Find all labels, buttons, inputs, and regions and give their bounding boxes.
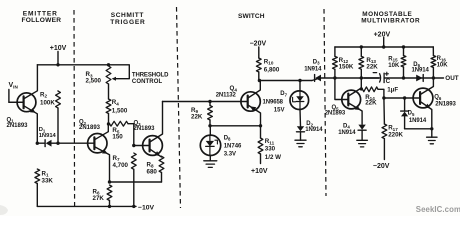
- resistor R4 1500: [106, 99, 111, 124]
- label R6 27K: [93, 188, 105, 202]
- svg-text:SWITCH: SWITCH: [238, 13, 265, 20]
- label R11 330 1/2W: [265, 138, 281, 161]
- label R16 10K: [437, 56, 449, 68]
- svg-text:1N914: 1N914: [304, 67, 322, 73]
- svg-text:1μF: 1μF: [387, 87, 398, 94]
- ground under Q6: [427, 137, 437, 144]
- svg-text:D5: D5: [408, 110, 415, 116]
- resistor R13 22K: [359, 47, 364, 78]
- svg-text:27K: 27K: [93, 195, 105, 202]
- label R8 680: [147, 161, 158, 175]
- svg-text:D3: D3: [313, 59, 320, 65]
- svg-text:FOLLOWER: FOLLOWER: [22, 17, 62, 24]
- svg-text:3.3V: 3.3V: [224, 151, 236, 157]
- svg-text:4,700: 4,700: [113, 162, 129, 169]
- node R10 / Q4 collector junction: [258, 79, 261, 82]
- label -20V at R17: [373, 163, 390, 170]
- svg-text:R15: R15: [388, 56, 398, 62]
- node D7 top junction: [298, 79, 301, 82]
- ground under D2: [295, 140, 306, 147]
- wire +20V top rail: [335, 46, 433, 48]
- wire Schmitt output to switch: [163, 101, 248, 103]
- resistor R10 6800: [256, 58, 261, 81]
- resistor R14 22K: [363, 87, 384, 98]
- pot wiper / threshold control loop: [109, 65, 130, 81]
- svg-text:6,800: 6,800: [264, 66, 280, 73]
- node R14/R17 junction on Q6 base wire: [382, 96, 385, 99]
- label R17 220K: [388, 124, 403, 138]
- svg-text:680: 680: [147, 168, 158, 175]
- resistor R5 150: [110, 121, 134, 145]
- label D1 1N914: [39, 127, 57, 139]
- resistor R12 150K: [333, 47, 338, 78]
- svg-text:D7: D7: [280, 91, 287, 97]
- svg-text:1,500: 1,500: [112, 107, 128, 114]
- label R1 33K: [42, 170, 54, 184]
- svg-text:15V: 15V: [274, 107, 285, 113]
- label -20V supply: [250, 40, 267, 47]
- svg-text:100K: 100K: [40, 100, 55, 107]
- svg-text:220K: 220K: [388, 132, 403, 139]
- svg-text:MULTIVIBRATOR: MULTIVIBRATOR: [361, 17, 420, 24]
- svg-text:−20V: −20V: [250, 40, 267, 47]
- svg-text:Q6: Q6: [434, 95, 442, 101]
- node R15 bottom junction: [402, 76, 405, 79]
- svg-text:10K: 10K: [437, 62, 449, 68]
- svg-text:+10V: +10V: [50, 45, 67, 52]
- svg-text:1N746: 1N746: [224, 143, 242, 149]
- wire +10V rail: [37, 64, 108, 66]
- label +10V at R11: [251, 168, 268, 175]
- svg-text:+20V: +20V: [374, 31, 391, 38]
- label D5 1N914: [408, 110, 427, 123]
- svg-text:2,500: 2,500: [86, 78, 102, 85]
- svg-text:SeekIC.com: SeekIC.com: [416, 205, 460, 214]
- node R13 rail junction: [360, 45, 363, 48]
- label +20V supply: [374, 31, 391, 38]
- resistor R9 22K: [208, 102, 213, 126]
- node emitter bus / R6 junction: [108, 180, 111, 183]
- node R3 top rail junction: [107, 63, 110, 66]
- diode D2 1N914: [297, 126, 305, 140]
- label D7 1N9658 15V: [263, 91, 288, 113]
- label Q5 2N1893: [325, 105, 346, 116]
- svg-text:2N1893: 2N1893: [134, 126, 156, 132]
- resistor R16 10K: [431, 47, 436, 78]
- watermark SeekIC.com: [416, 205, 460, 214]
- node R4/R5/Q2-collector junction: [107, 122, 110, 125]
- label D6 1N914: [412, 62, 430, 74]
- svg-text:22K: 22K: [191, 114, 203, 121]
- label -10V: [138, 204, 155, 211]
- node Q5 collector / R14 junction: [360, 87, 363, 90]
- node D5 junction on Q6 base wire: [403, 96, 406, 99]
- svg-text:1N9658: 1N9658: [263, 99, 284, 105]
- wire +20V feed: [383, 38, 385, 48]
- svg-text:33K: 33K: [42, 177, 54, 184]
- node Q4 emitter / R11 junction: [259, 124, 262, 127]
- dashed separator 3: [324, 9, 326, 196]
- diode D5 1N914: [401, 98, 409, 129]
- label D3 1N914: [304, 59, 322, 72]
- section title EMITTER FOLLOWER: [22, 10, 62, 24]
- wire +10V feed: [57, 52, 59, 65]
- svg-text:1N914: 1N914: [39, 133, 57, 139]
- dashed separator 2: [177, 7, 181, 208]
- node +20V rail junction: [382, 45, 385, 48]
- potentiometer R3 2500: [106, 66, 111, 99]
- transistor Q4 2N1132 (PNP): [241, 81, 261, 126]
- zener D7 1N9658 15V: [290, 81, 309, 127]
- svg-text:22K: 22K: [366, 63, 378, 70]
- transistor Q5: [342, 88, 362, 124]
- svg-text:SCHMITT: SCHMITT: [111, 12, 144, 19]
- node R9/D8 junction: [208, 124, 211, 127]
- label D8 1N746 3.3V: [224, 135, 242, 157]
- resistor R15 10K: [401, 47, 406, 78]
- resistor R2: [56, 91, 61, 143]
- label C 1uF: [386, 78, 399, 94]
- transistor Q1: [9, 65, 38, 143]
- svg-text:150K: 150K: [339, 63, 354, 70]
- label R12 150K: [339, 57, 354, 71]
- wire switch output rail: [259, 78, 443, 81]
- zener D8 1N746: [200, 126, 220, 161]
- svg-text:22K: 22K: [365, 100, 377, 107]
- diode D4 1N914: [358, 125, 366, 141]
- section title MONOSTABLE MULTIVIBRATOR: [361, 11, 420, 25]
- node D1 cathode-side junction R2 bottom: [56, 142, 59, 145]
- svg-text:330: 330: [265, 145, 276, 152]
- diode D3 1N914: [315, 75, 321, 82]
- diode D1 1N914: [37, 140, 58, 147]
- section title SCHMITT TRIGGER: [110, 12, 145, 26]
- label OUT: [445, 75, 458, 82]
- node OUT junction: [432, 76, 435, 79]
- resistor R11 330 1/2W: [258, 126, 263, 164]
- wire -10V bottom rail: [37, 205, 136, 207]
- dashed separator 1: [73, 10, 76, 208]
- svg-text:1N914: 1N914: [338, 130, 356, 136]
- svg-text:CONTROL: CONTROL: [132, 79, 163, 85]
- svg-text:TRIGGER: TRIGGER: [110, 19, 145, 26]
- label Q3 2N1893: [134, 120, 156, 132]
- svg-text:D8: D8: [224, 135, 231, 141]
- label THRESHOLD CONTROL: [132, 73, 169, 85]
- wire Q6 emitter ground stem: [431, 129, 433, 137]
- node R15 rail junction: [402, 45, 405, 48]
- svg-text:D4: D4: [343, 123, 350, 129]
- wire R9-to-R11 link: [210, 125, 261, 127]
- node Q3 base / R7 junction: [132, 144, 135, 147]
- wire R13 to collector node: [360, 78, 362, 89]
- node R12 bottom junction Q5 base feed: [333, 76, 336, 79]
- label Vin: [9, 82, 19, 89]
- wire -20V feed: [258, 47, 260, 58]
- wire D1 junction to Q2 base: [58, 142, 94, 144]
- label Q4 2N1132: [216, 85, 238, 98]
- svg-text:2N1893: 2N1893: [325, 110, 346, 116]
- section title SWITCH: [238, 13, 265, 20]
- label R14 22K: [365, 94, 377, 107]
- capacitor C 1uF: [364, 72, 388, 82]
- label Q6 2N1893: [434, 95, 456, 108]
- label R7 4700: [113, 155, 129, 169]
- svg-text:2N1132: 2N1132: [216, 93, 237, 99]
- svg-text:10K: 10K: [388, 63, 400, 69]
- svg-text:THRESHOLD: THRESHOLD: [132, 73, 169, 79]
- ground under D4: [357, 140, 368, 147]
- svg-text:2N1893: 2N1893: [7, 123, 29, 129]
- node bottom rail / R6 junction: [108, 205, 111, 208]
- resistor R1 33K: [35, 169, 40, 206]
- transistor Q3: [134, 102, 163, 158]
- svg-text:2N1893: 2N1893: [435, 101, 456, 107]
- label Q1 2N1893: [7, 117, 29, 129]
- label R2 100K: [40, 91, 55, 106]
- label R15 10K: [388, 56, 400, 69]
- label R3 2500: [86, 71, 102, 84]
- label R10 6800: [264, 58, 280, 73]
- label Q2 2N1893: [79, 120, 101, 131]
- wire Vin input lead: [9, 90, 24, 103]
- node R9 junction on base wire: [208, 100, 211, 103]
- svg-text:OUT: OUT: [445, 75, 458, 82]
- node Q6 emitter / ground junction: [430, 127, 433, 130]
- node R13 bottom junction: [360, 76, 363, 79]
- label D2 1N914: [305, 121, 323, 133]
- label R13 22K: [366, 57, 378, 71]
- diode D6 1N914: [416, 75, 423, 82]
- svg-text:+10V: +10V: [251, 168, 268, 175]
- wire Q6 base: [384, 97, 420, 99]
- svg-text:1N914: 1N914: [409, 118, 427, 124]
- label D4 1N914: [338, 123, 356, 136]
- resistor R6 27K: [107, 185, 112, 206]
- label +10V supply: [50, 45, 67, 52]
- resistor R7 4700: [131, 153, 136, 206]
- wire emitter bus: [110, 181, 162, 183]
- scan smudge bottom left: [0, 205, 8, 215]
- resistor R17 220K: [382, 98, 387, 160]
- svg-text:2N1893: 2N1893: [79, 125, 101, 131]
- svg-text:1/2 W: 1/2 W: [265, 154, 281, 161]
- svg-text:−10V: −10V: [138, 204, 155, 211]
- transistor Q2: [88, 124, 110, 182]
- resistor R8 680: [159, 156, 164, 182]
- wire D5 to Q6 emitter ground link: [405, 128, 432, 130]
- node bottom rail / R7 junction: [132, 205, 135, 208]
- svg-text:1N914: 1N914: [305, 127, 323, 133]
- svg-text:1N914: 1N914: [412, 68, 430, 74]
- wire Q5 base drop: [335, 78, 348, 100]
- node Q1 emitter / D1 anode-side junction: [36, 142, 39, 145]
- label R4 1500: [112, 99, 128, 114]
- label R9 22K: [191, 107, 203, 121]
- label R5 150: [112, 127, 123, 141]
- svg-text:150: 150: [112, 134, 123, 141]
- svg-text:−20V: −20V: [373, 163, 390, 170]
- transistor Q6: [413, 78, 433, 129]
- svg-text:C: C: [386, 78, 391, 85]
- ground under D8: [204, 161, 217, 168]
- node +10V rail junction R2: [56, 63, 59, 66]
